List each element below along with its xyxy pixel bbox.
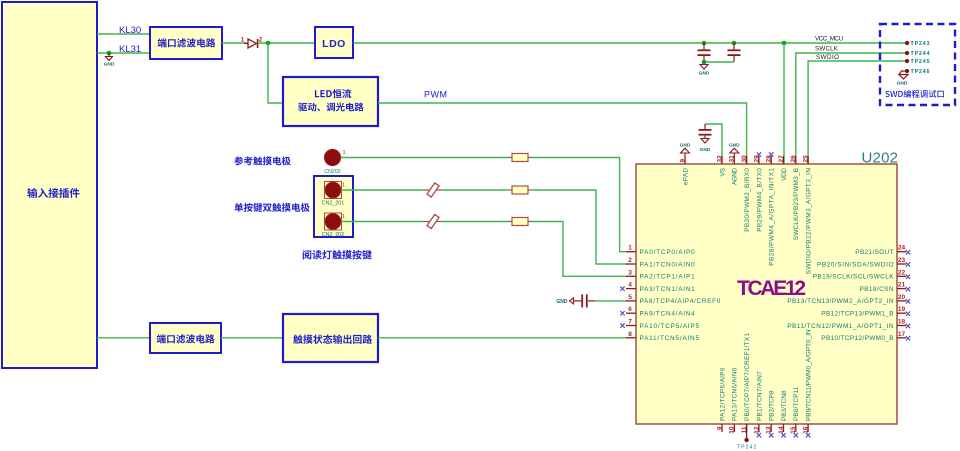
wire filter to output block xyxy=(221,337,283,339)
pin 28 PB28/PWM4_A/GPTA_IN/TX1 (top) xyxy=(766,152,776,265)
pin 26 SWCLK/PB23/PWM3_B (top) xyxy=(790,155,800,240)
svg-text:PB19/SCLK/SCL/SWCLK: PB19/SCLK/SCL/SWCLK xyxy=(813,274,895,281)
svg-text:PA0/TCP0/AIP0: PA0/TCP0/AIP0 xyxy=(640,249,696,256)
MCU U202 TCAE12 xyxy=(636,164,897,424)
net label PWM xyxy=(424,90,448,100)
svg-text:17: 17 xyxy=(898,331,906,338)
node VIN junction xyxy=(266,41,271,46)
pin 8 PA11/TCN5/AIN5 xyxy=(626,331,699,342)
svg-text:VDD: VDD xyxy=(781,168,788,181)
svg-text:1: 1 xyxy=(343,150,346,156)
svg-text:15: 15 xyxy=(790,426,797,434)
test point TP242 xyxy=(737,424,756,451)
pin 13 PB2/TCP8 (bottom) xyxy=(766,390,776,437)
wire CN202 to R xyxy=(341,157,508,159)
ground at TP246 xyxy=(897,71,908,87)
SWD debug port dashed box xyxy=(880,24,955,105)
svg-text:GND: GND xyxy=(700,147,711,153)
svg-text:PB10/TCP12/PWM0_B: PB10/TCP12/PWM0_B xyxy=(821,335,893,342)
wire FB2 to R3 xyxy=(442,221,508,223)
svg-text:TP243: TP243 xyxy=(911,41,930,47)
wire SWDIO net xyxy=(808,61,907,164)
ground at CREF cap xyxy=(556,298,573,305)
wire FB1 to R2 xyxy=(442,189,508,191)
resistor R3 xyxy=(508,218,532,226)
svg-text:12: 12 xyxy=(753,426,760,434)
pin 22 PB19/SCLK/SCL/SWCLK xyxy=(813,269,911,280)
svg-text:TP246: TP246 xyxy=(911,69,930,75)
svg-text:PA2/TCP1/AIP1: PA2/TCP1/AIP1 xyxy=(640,274,696,281)
input connector box 输入接插件 xyxy=(2,2,97,368)
wire PWM net xyxy=(378,103,747,164)
svg-text:PA1/TCN0/AIN0: PA1/TCN0/AIN0 xyxy=(640,261,696,268)
svg-text:8: 8 xyxy=(628,331,632,338)
test point TP243 xyxy=(905,41,930,47)
svg-text:PA13/TCN6/AIN6: PA13/TCN6/AIN6 xyxy=(732,367,739,421)
ground at KL31 xyxy=(104,51,115,68)
connector CN2 box xyxy=(314,176,353,237)
pin 18 PB11/TCN12/PWM1_A/GPT1_IN xyxy=(787,319,910,330)
pin 32 VS (top) xyxy=(716,155,726,177)
svg-text:4: 4 xyxy=(628,282,632,289)
svg-text:SWDIO: SWDIO xyxy=(816,54,839,61)
block 触摸状态输出回路 xyxy=(283,314,378,362)
svg-text:PB3/TCN8: PB3/TCN8 xyxy=(781,390,788,421)
svg-text:2: 2 xyxy=(628,257,632,264)
svg-text:AGND: AGND xyxy=(732,168,739,185)
pin 24 PB21/SOUT xyxy=(855,245,910,256)
wire R1 to pin1 xyxy=(532,158,627,252)
svg-text:PB29/PWM4_B/TX0: PB29/PWM4_B/TX0 xyxy=(756,168,763,232)
pin 21 PB18/CSN xyxy=(860,282,911,293)
svg-text:GND: GND xyxy=(729,143,740,149)
ferrite FB1 xyxy=(424,183,442,197)
svg-text:32: 32 xyxy=(716,155,723,163)
pin 17 PB10/TCP12/PWM0_B xyxy=(821,331,910,342)
block 端口滤波电路 (top) xyxy=(150,27,222,59)
svg-text:SWCLK/PB23/PWM3_B: SWCLK/PB23/PWM3_B xyxy=(793,168,800,240)
svg-text:TP244: TP244 xyxy=(911,51,931,57)
ferrite FB2 xyxy=(424,214,442,228)
wire filter to diode xyxy=(222,42,248,44)
ground below C1 xyxy=(699,65,710,77)
svg-text:VCC_MCU: VCC_MCU xyxy=(815,36,843,43)
svg-text:U202: U202 xyxy=(862,149,899,166)
test point TP246 xyxy=(905,69,930,75)
pin 14 PB3/TCN8 (bottom) xyxy=(778,390,788,437)
svg-text:1: 1 xyxy=(342,214,345,220)
svg-text:PA11/TCN5/AIN5: PA11/TCN5/AIN5 xyxy=(640,335,700,342)
svg-text:GND: GND xyxy=(556,299,568,305)
label 阅读灯触摸按键 xyxy=(303,250,372,260)
svg-text:PB2/TCP8: PB2/TCP8 xyxy=(769,390,776,421)
svg-text:SWDIO/PB22/PWM3_A/GPT3_IN: SWDIO/PB22/PWM3_A/GPT3_IN xyxy=(806,168,813,275)
svg-text:GND: GND xyxy=(104,62,115,68)
label 参考触摸电极 xyxy=(234,156,291,165)
ground below C4 xyxy=(700,139,711,154)
svg-text:PB8/TCP11: PB8/TCP11 xyxy=(793,386,800,421)
pin 9 PA12/TCP6/AIP6 (bottom) xyxy=(716,367,726,432)
svg-text:KL31: KL31 xyxy=(119,44,141,55)
wire CN2_201 row xyxy=(341,189,424,191)
net label VCC_MCU xyxy=(815,36,843,43)
svg-text:10: 10 xyxy=(729,426,736,434)
svg-text:22: 22 xyxy=(898,269,906,276)
pin 16 PB9/TCN11/PWM0_A/GPT0_IN (bottom) xyxy=(803,329,813,437)
svg-text:CN202: CN202 xyxy=(324,169,341,175)
label 单按键双触摸电极 xyxy=(235,203,310,212)
svg-text:PB12/TCP13/PWM1_B: PB12/TCP13/PWM1_B xyxy=(821,311,893,318)
svg-text:13: 13 xyxy=(766,426,773,434)
pin 31 AGND (top) xyxy=(729,143,740,186)
svg-text:26: 26 xyxy=(790,155,797,163)
wire diode to LDO xyxy=(258,42,315,44)
capacitor C4 xyxy=(699,124,712,139)
pin 1 PA0/TCP0/AIP0 xyxy=(626,245,695,256)
svg-text:1: 1 xyxy=(628,245,632,252)
svg-text:5: 5 xyxy=(628,294,632,301)
svg-text:GND: GND xyxy=(699,71,710,77)
block 端口滤波电路 (bottom) xyxy=(150,323,221,353)
svg-text:VS: VS xyxy=(719,168,726,177)
svg-text:PA10/TCP5/AIP5: PA10/TCP5/AIP5 xyxy=(640,323,700,330)
resistor R2 xyxy=(508,186,532,194)
svg-text:31: 31 xyxy=(729,155,736,163)
svg-text:14: 14 xyxy=(778,426,785,434)
diode D1 xyxy=(241,38,263,49)
block LED恒流驱动、调光电路 xyxy=(283,77,378,126)
net label SWCLK xyxy=(815,46,839,53)
svg-text:23: 23 xyxy=(898,257,906,264)
svg-text:25: 25 xyxy=(803,155,810,163)
pin 11 PB0/TCP7/AIP7/CREF1/TX1 (bottom) xyxy=(741,333,751,434)
svg-text:PA3/TCN1/AIN1: PA3/TCN1/AIN1 xyxy=(640,286,696,293)
pin 30 PB30/PWM2_B/RX0 (top) xyxy=(741,155,751,232)
svg-text:18: 18 xyxy=(898,319,906,326)
wire C3 to pin5 xyxy=(595,300,627,302)
svg-text:PB21/SOUT: PB21/SOUT xyxy=(855,249,893,256)
svg-text:20: 20 xyxy=(898,294,906,301)
pin 12 PB1/TCN7/AIN7 (bottom) xyxy=(753,371,763,438)
svg-text:7: 7 xyxy=(628,319,632,326)
svg-text:1: 1 xyxy=(342,183,345,189)
pin 7 PA10/TCP5/AIP5 xyxy=(620,319,699,330)
resistor R1 xyxy=(508,154,532,162)
pin 27 VDD (top) xyxy=(778,155,788,181)
pin 4 PA3/TCN1/AIN1 xyxy=(620,282,695,293)
svg-text:PA8/TCP4/AIP4/CREF0: PA8/TCP4/AIP4/CREF0 xyxy=(640,298,721,305)
electrode CN2_202 xyxy=(322,213,345,238)
electrode CN2_201 xyxy=(322,182,345,207)
svg-text:PB13/TCN13/PWM2_A/GPT2_IN: PB13/TCN13/PWM2_A/GPT2_IN xyxy=(787,298,894,305)
svg-text:PB9/TCN11/PWM0_A/GPT0_IN: PB9/TCN11/PWM0_A/GPT0_IN xyxy=(806,329,813,421)
svg-text:PB1/TCN7/AIN7: PB1/TCN7/AIN7 xyxy=(756,371,763,421)
svg-text:9: 9 xyxy=(679,159,686,163)
pin 3 PA2/TCP1/AIP1 xyxy=(626,269,695,280)
pin 25 SWDIO/PB22/PWM3_A/GPT3_IN (top) xyxy=(803,155,813,274)
svg-text:30: 30 xyxy=(741,155,748,163)
pin 15 PB8/TCP11 (bottom) xyxy=(790,386,800,437)
svg-text:SWCLK: SWCLK xyxy=(815,46,839,53)
svg-text:PB11/TCN12/PWM1_A/GPT1_IN: PB11/TCN12/PWM1_A/GPT1_IN xyxy=(787,323,894,330)
svg-text:LDO: LDO xyxy=(322,38,346,50)
wire R2 to pin2 xyxy=(532,190,627,264)
wire output block to pin8 xyxy=(378,337,627,339)
wire cap commons xyxy=(702,60,734,65)
svg-text:PB28/PWM4_A/GPTA_IN/TX1: PB28/PWM4_A/GPTA_IN/TX1 xyxy=(769,168,776,266)
capacitor C3 CREF0 xyxy=(574,294,596,307)
pin 6 PA9/TCN4/AIN4 xyxy=(620,306,695,317)
svg-text:19: 19 xyxy=(898,306,906,313)
wire input to bottom filter xyxy=(97,337,150,339)
svg-text:TP242: TP242 xyxy=(737,445,756,451)
pin 19 PB12/TCP13/PWM1_B xyxy=(821,306,910,317)
pin 10 PA13/TCN6/AIN6 (bottom) xyxy=(729,367,739,434)
svg-text:PB0/TCP7/AIP7/CREF1/TX1: PB0/TCP7/AIP7/CREF1/TX1 xyxy=(744,333,751,421)
svg-text:3: 3 xyxy=(628,269,632,276)
svg-text:TP245: TP245 xyxy=(911,59,930,65)
svg-text:16: 16 xyxy=(803,426,810,434)
wire CN2_202 row xyxy=(341,221,424,223)
capacitor C1 xyxy=(698,41,711,62)
svg-text:PA9/TCN4/AIN4: PA9/TCN4/AIN4 xyxy=(640,311,696,318)
svg-text:KL30: KL30 xyxy=(119,25,141,36)
svg-text:TCAE12: TCAE12 xyxy=(737,277,806,300)
svg-text:PWM: PWM xyxy=(424,90,448,100)
svg-text:PA12/TCP6/AIP6: PA12/TCP6/AIP6 xyxy=(719,367,726,421)
pin 20 PB13/TCN13/PWM2_A/GPT2_IN xyxy=(787,294,910,305)
electrode CN202 xyxy=(324,149,345,175)
svg-text:GND: GND xyxy=(680,143,691,149)
wire SWCLK net xyxy=(796,53,907,164)
wire VCC_MCU rail xyxy=(353,42,907,44)
designator U202 xyxy=(862,149,899,166)
svg-text:CN2_202: CN2_202 xyxy=(322,232,344,238)
wire junction down to LED driver xyxy=(268,43,283,103)
svg-text:21: 21 xyxy=(898,282,906,289)
svg-text:PB30/PWM2_B/RX0: PB30/PWM2_B/RX0 xyxy=(744,168,751,232)
pin 23 PB20/SIN/SDA/SWDIO xyxy=(817,257,910,268)
pin 9 ePAD (top) xyxy=(679,143,690,186)
wire KL31 xyxy=(97,44,150,55)
svg-text:9: 9 xyxy=(716,426,723,430)
pin 29 PB29/PWM4_B/TX0 (top) xyxy=(753,152,763,232)
svg-text:PB20/SIN/SDA/SWDIO: PB20/SIN/SDA/SWDIO xyxy=(817,261,894,268)
part name TCAE12 xyxy=(737,277,806,300)
test point TP245 xyxy=(905,59,930,65)
pin 2 PA1/TCN0/AIN0 xyxy=(626,257,695,268)
capacitor C2 xyxy=(728,41,741,62)
svg-text:CN2_201: CN2_201 xyxy=(322,201,344,207)
svg-text:GND: GND xyxy=(897,81,908,87)
wire VDD drop xyxy=(782,41,787,164)
svg-text:27: 27 xyxy=(778,155,785,163)
svg-text:ePAD: ePAD xyxy=(682,168,689,185)
svg-text:24: 24 xyxy=(898,245,906,252)
block LDO U? xyxy=(315,27,353,58)
wire VS to C4 xyxy=(705,124,722,156)
pin 5 PA8/TCP4/AIP4/CREF0 xyxy=(626,294,721,305)
svg-text:6: 6 xyxy=(628,306,632,313)
svg-text:PB18/CSN: PB18/CSN xyxy=(860,286,894,293)
wire R3 to pin3 xyxy=(532,222,627,277)
wire KL30 xyxy=(97,25,150,36)
test point TP244 xyxy=(905,51,931,57)
net label SWDIO xyxy=(816,54,839,61)
